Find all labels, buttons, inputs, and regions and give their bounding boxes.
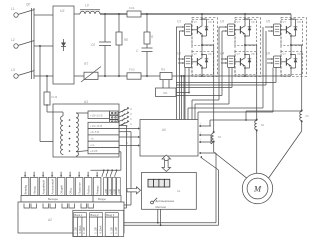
diode VD3 (244, 18, 255, 37)
svg-text:Выходы: Выходы (48, 197, 58, 201)
svg-text:UZ: UZ (60, 9, 65, 13)
svg-text:Пуск/стоп: Пуск/стоп (78, 182, 82, 195)
module dashed box VT1 (192, 20, 214, 46)
wire U6 feed a (198, 68, 273, 120)
panel display (148, 179, 170, 187)
svg-text:U1: U1 (177, 20, 181, 24)
svg-text:+15/+15 В: +15/+15 В (90, 114, 103, 118)
diode VD5 (290, 18, 301, 37)
wire L2 tap to A3 (40, 46, 63, 142)
driver U1 input wires (176, 26, 184, 32)
bottom DC rail right (172, 75, 291, 77)
wire U4 feed a (195, 68, 229, 120)
svg-text:L0: L0 (85, 4, 89, 8)
svg-text:VT: VT (194, 20, 198, 24)
terminal L3 (11, 68, 35, 78)
current transformer TAb (255, 119, 264, 132)
A0 serial link wires (199, 152, 219, 170)
svg-text:U: U (130, 107, 132, 111)
svg-text:Аварийный: Аварийный (42, 180, 46, 195)
svg-text:VT: VT (283, 52, 287, 56)
svg-text:FU2: FU2 (129, 68, 135, 72)
wire TAa return (211, 135, 214, 144)
svg-text:+24 В: +24 В (90, 149, 98, 153)
svg-text:Общ.: Общ. (69, 187, 73, 194)
panel bottom stubs (157, 209, 162, 226)
svg-text:VT: VT (237, 52, 241, 56)
motor M (242, 173, 272, 203)
svg-text:0..10В: 0..10В (116, 227, 118, 234)
wire U3 feed b (176, 31, 222, 96)
svg-text:FU1: FU1 (129, 6, 135, 10)
wire phase B (256, 45, 258, 173)
transistor VT5 (281, 14, 292, 45)
wire U2 feed a (184, 68, 186, 120)
terminal block A2 (18, 202, 124, 233)
svg-text:TA: TA (218, 135, 222, 139)
wire phase A (214, 45, 247, 178)
svg-text:C0: C0 (91, 43, 95, 47)
svg-text:TA: TA (261, 123, 265, 127)
svg-text:Входы: Входы (98, 197, 106, 201)
svg-text:Вперёд: Вперёд (24, 185, 28, 195)
wire L2 to rectifier (34, 45, 53, 47)
rectifier UZ (53, 6, 74, 84)
A0 left input arrows (134, 127, 140, 129)
svg-text:Вход 2: Вход 2 (91, 213, 100, 217)
leg outer dashed box x291 (281, 18, 307, 77)
transistor VT4 (235, 45, 246, 76)
wire A3 to A0 3 (119, 141, 134, 146)
wire 24V down (119, 152, 121, 171)
current transformer TAa (212, 131, 221, 143)
svg-text:0..10В: 0..10В (96, 227, 98, 234)
power supply A3 box (53, 100, 119, 157)
svg-text:+10В: +10В (115, 189, 117, 195)
phase tap node x202 (201, 44, 214, 46)
thermistor RT (81, 62, 101, 82)
svg-text:QF: QF (26, 3, 30, 7)
svg-text:0..10В: 0..10В (84, 227, 86, 234)
driver U6 (266, 52, 281, 68)
fuse FU1 (127, 6, 141, 17)
svg-text:A1: A1 (177, 189, 181, 193)
current transformer TAc (300, 110, 309, 123)
svg-text:M: M (253, 184, 262, 194)
panel mode switch (151, 198, 175, 209)
wire phase C (268, 45, 301, 179)
wire A3 to A0 2 (119, 133, 134, 138)
driver U2 (177, 52, 192, 68)
driver U1 (177, 20, 192, 36)
terminal strip bar (21, 196, 121, 203)
svg-text:+10В: +10В (110, 189, 112, 195)
wire U2 feed b (176, 68, 190, 94)
terminal L2 (11, 38, 35, 48)
transistor VT6 (281, 45, 292, 76)
wire TAc return (246, 111, 302, 120)
A3 gate supply arrows (118, 107, 132, 126)
wire U1 feed a (176, 27, 178, 120)
svg-text:TA: TA (305, 114, 309, 118)
svg-text:A0: A0 (162, 128, 166, 132)
svg-text:VD: VD (208, 52, 212, 56)
breaker QF linkage (26, 3, 34, 80)
transistor VT1 (192, 14, 203, 45)
driver U6 input wires (267, 58, 273, 64)
terminal L1 (11, 7, 35, 17)
wire L3 to rectifier (34, 75, 53, 77)
svg-text:+10В: +10В (119, 189, 121, 195)
wire FU2 to RS (141, 75, 160, 77)
transistor VT2 (192, 45, 203, 76)
svg-text:FU3: FU3 (52, 95, 58, 99)
svg-text:+15/-15 В: +15/-15 В (90, 124, 102, 128)
wire A3 to A2 1 (119, 125, 127, 208)
phase tap node x245 (244, 44, 257, 46)
svg-text:VT: VT (237, 20, 241, 24)
svg-text:+5/-5 В: +5/-5 В (90, 130, 99, 134)
module dashed box VT3 (235, 20, 257, 46)
svg-text:R0: R0 (124, 38, 128, 42)
diode VD6 (290, 52, 301, 69)
wire U1 feed b (179, 31, 181, 120)
svg-text:Вход 1: Вход 1 (74, 213, 83, 217)
capacitor C (136, 48, 153, 76)
svg-text:Работа: Работа (87, 185, 91, 194)
phase tap node x291 (290, 44, 303, 46)
driver U4 input wires (221, 58, 227, 64)
A3 output row1 (88, 111, 110, 119)
driver U5 (266, 20, 281, 36)
svg-text:U: U (130, 112, 132, 116)
svg-text:L3: L3 (11, 68, 15, 72)
driver U2 input wires (178, 58, 184, 64)
svg-text:L1: L1 (11, 7, 15, 11)
diode VD1 (201, 18, 212, 37)
svg-text:Дистанционное: Дистанционное (156, 199, 175, 203)
transistor VT3 (235, 14, 246, 45)
controller A0 (140, 120, 198, 157)
svg-text:4..20мА: 4..20мА (99, 225, 102, 234)
wire U3 feed a (192, 27, 219, 120)
svg-text:VT: VT (194, 52, 198, 56)
24V drop hooks (102, 170, 117, 177)
svg-text:Общий: Общий (60, 185, 64, 194)
svg-text:Местное: Местное (156, 205, 167, 209)
terminal boxes narrow (104, 178, 121, 196)
panel A1 box (142, 173, 197, 210)
top DC rail (100, 13, 291, 15)
A3 secondary taps (76, 113, 88, 152)
module dashed box VT4 (235, 52, 257, 75)
driver U5 input wires (265, 26, 273, 32)
svg-text:VD: VD (297, 20, 301, 24)
wire U6 feed b (176, 68, 276, 83)
analog input blocks (73, 210, 124, 236)
driver U3 (220, 20, 235, 36)
sensor UD box (156, 88, 177, 97)
A3 output rows (88, 122, 119, 154)
svg-text:U: U (130, 122, 132, 126)
svg-text:A3: A3 (84, 100, 88, 104)
svg-text:RS: RS (161, 68, 165, 72)
driver U4 (220, 52, 235, 68)
capacitor C0 (91, 14, 111, 76)
driver U3 input wires (219, 26, 227, 32)
svg-text:U: U (130, 117, 132, 121)
cable loop horizontal (124, 223, 219, 226)
leg outer dashed box x245 (235, 18, 261, 77)
diode VD4 (244, 52, 255, 69)
wire L3 tap to FU3 (46, 76, 48, 92)
terminal boxes outputs (21, 178, 101, 196)
A0-A1 double arrow (162, 155, 171, 172)
svg-text:+10В: +10В (106, 189, 108, 195)
wire L1 to rectifier (34, 14, 53, 16)
A0 right current inputs (199, 122, 211, 128)
svg-text:VT: VT (283, 20, 287, 24)
svg-text:VD: VD (208, 20, 212, 24)
wire rectifier to RT (74, 75, 84, 77)
leg outer dashed box x202 (192, 18, 218, 77)
wire rectifier to L0 (74, 13, 80, 15)
resistor R0 (116, 14, 128, 76)
shunt RS (160, 68, 172, 80)
svg-text:U5: U5 (266, 20, 270, 24)
transformer TV (47, 104, 78, 156)
svg-text:A2: A2 (48, 218, 52, 222)
wire U4 feed b (176, 68, 232, 88)
wire A3 to A2 2 (119, 132, 131, 205)
svg-text:4..20мА: 4..20мА (79, 225, 82, 234)
module dashed box VT2 (192, 52, 214, 75)
svg-text:VD: VD (297, 52, 301, 56)
24V distribution bus (91, 169, 121, 171)
svg-text:Вход 3: Вход 3 (106, 213, 115, 217)
wire rail pair to A0 (182, 76, 185, 120)
svg-text:VD: VD (251, 52, 255, 56)
svg-text:0..10В: 0..10В (76, 227, 78, 234)
svg-text:0..10В: 0..10В (111, 227, 113, 234)
fuse FU2 (127, 68, 141, 80)
diode VD2 (201, 52, 212, 69)
wire U5 feed b (176, 31, 266, 85)
A2-A1 block arrow (127, 187, 141, 194)
svg-text:VD: VD (251, 20, 255, 24)
bottom DC rail left (98, 75, 127, 77)
svg-text:U3: U3 (220, 20, 224, 24)
svg-text:Аналоговый: Аналоговый (51, 179, 55, 195)
svg-text:Реверс: Реверс (96, 185, 100, 195)
svg-text:U6: U6 (266, 52, 270, 56)
terminal input arrows (24, 172, 98, 178)
svg-text:Назад: Назад (33, 186, 37, 194)
wire RS to UD (163, 80, 169, 88)
wire U5 feed a (188, 27, 263, 120)
module dashed box VT5 (281, 20, 303, 46)
module dashed box VT6 (281, 52, 303, 75)
svg-text:L2: L2 (11, 38, 15, 42)
wire A3 to A0 1 (119, 124, 134, 129)
wire TAb return (210, 119, 257, 126)
cable loop vertical (216, 153, 219, 225)
A3 isolated outputs (110, 111, 119, 128)
inductor L0 (80, 4, 100, 15)
fuse FU3 (44, 92, 57, 105)
resistor R (144, 14, 154, 48)
